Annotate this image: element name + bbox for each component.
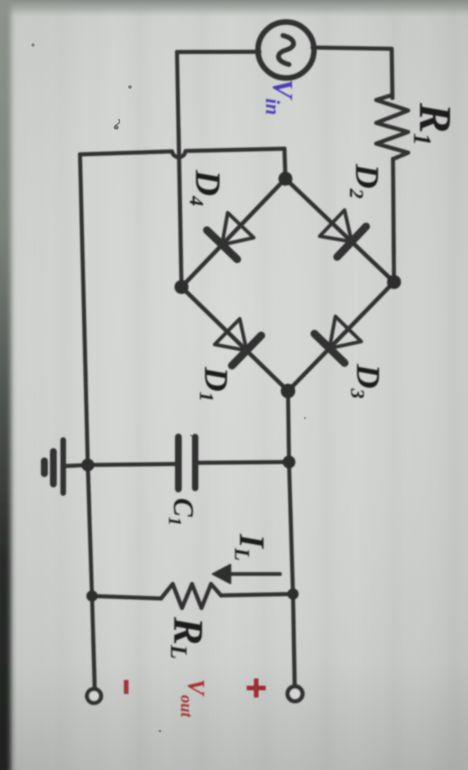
wire: side B-R [182,287,289,391]
resistor R1 [376,95,408,159]
terminal - output [87,689,101,703]
arrow IL [213,565,281,584]
node RL/bottom rail [86,590,97,601]
wire: minus branch with hop over AC return [80,149,284,158]
ac source V1 (Vin) [258,22,314,78]
diode D2 [320,210,366,257]
node RL/plus rail [287,588,298,599]
node bridge-top [387,275,401,289]
junction node dots [81,172,401,602]
wire: AC return to bridge bottom node [177,52,182,287]
wire: side L-T [285,179,394,282]
node ground/bottom rail [81,459,94,472]
node C1/plus rail [283,456,296,469]
wire: R1 to bridge top node [393,159,394,282]
wire: plus rail to plus terminal [288,391,295,685]
wire: bottom rail to minus terminal [80,154,95,687]
wire: source top lead to top-left corner [313,48,393,99]
node bridge-right [281,384,296,399]
node bridge-bottom [175,280,189,294]
diode D3 [314,316,361,363]
terminal + output [288,686,303,701]
wire: side T-R [288,282,394,391]
wire: source bottom lead [177,50,260,54]
ground [44,440,87,493]
capacitor C1 [88,437,289,489]
diode D1 [215,319,262,366]
wire: side L-B [182,179,286,287]
label minus [124,680,129,694]
resistor RL [92,584,293,608]
wire: bridge left node stub [284,149,285,179]
diode D4 [207,213,254,259]
node bridge-left [278,172,292,186]
label plus [247,679,266,698]
